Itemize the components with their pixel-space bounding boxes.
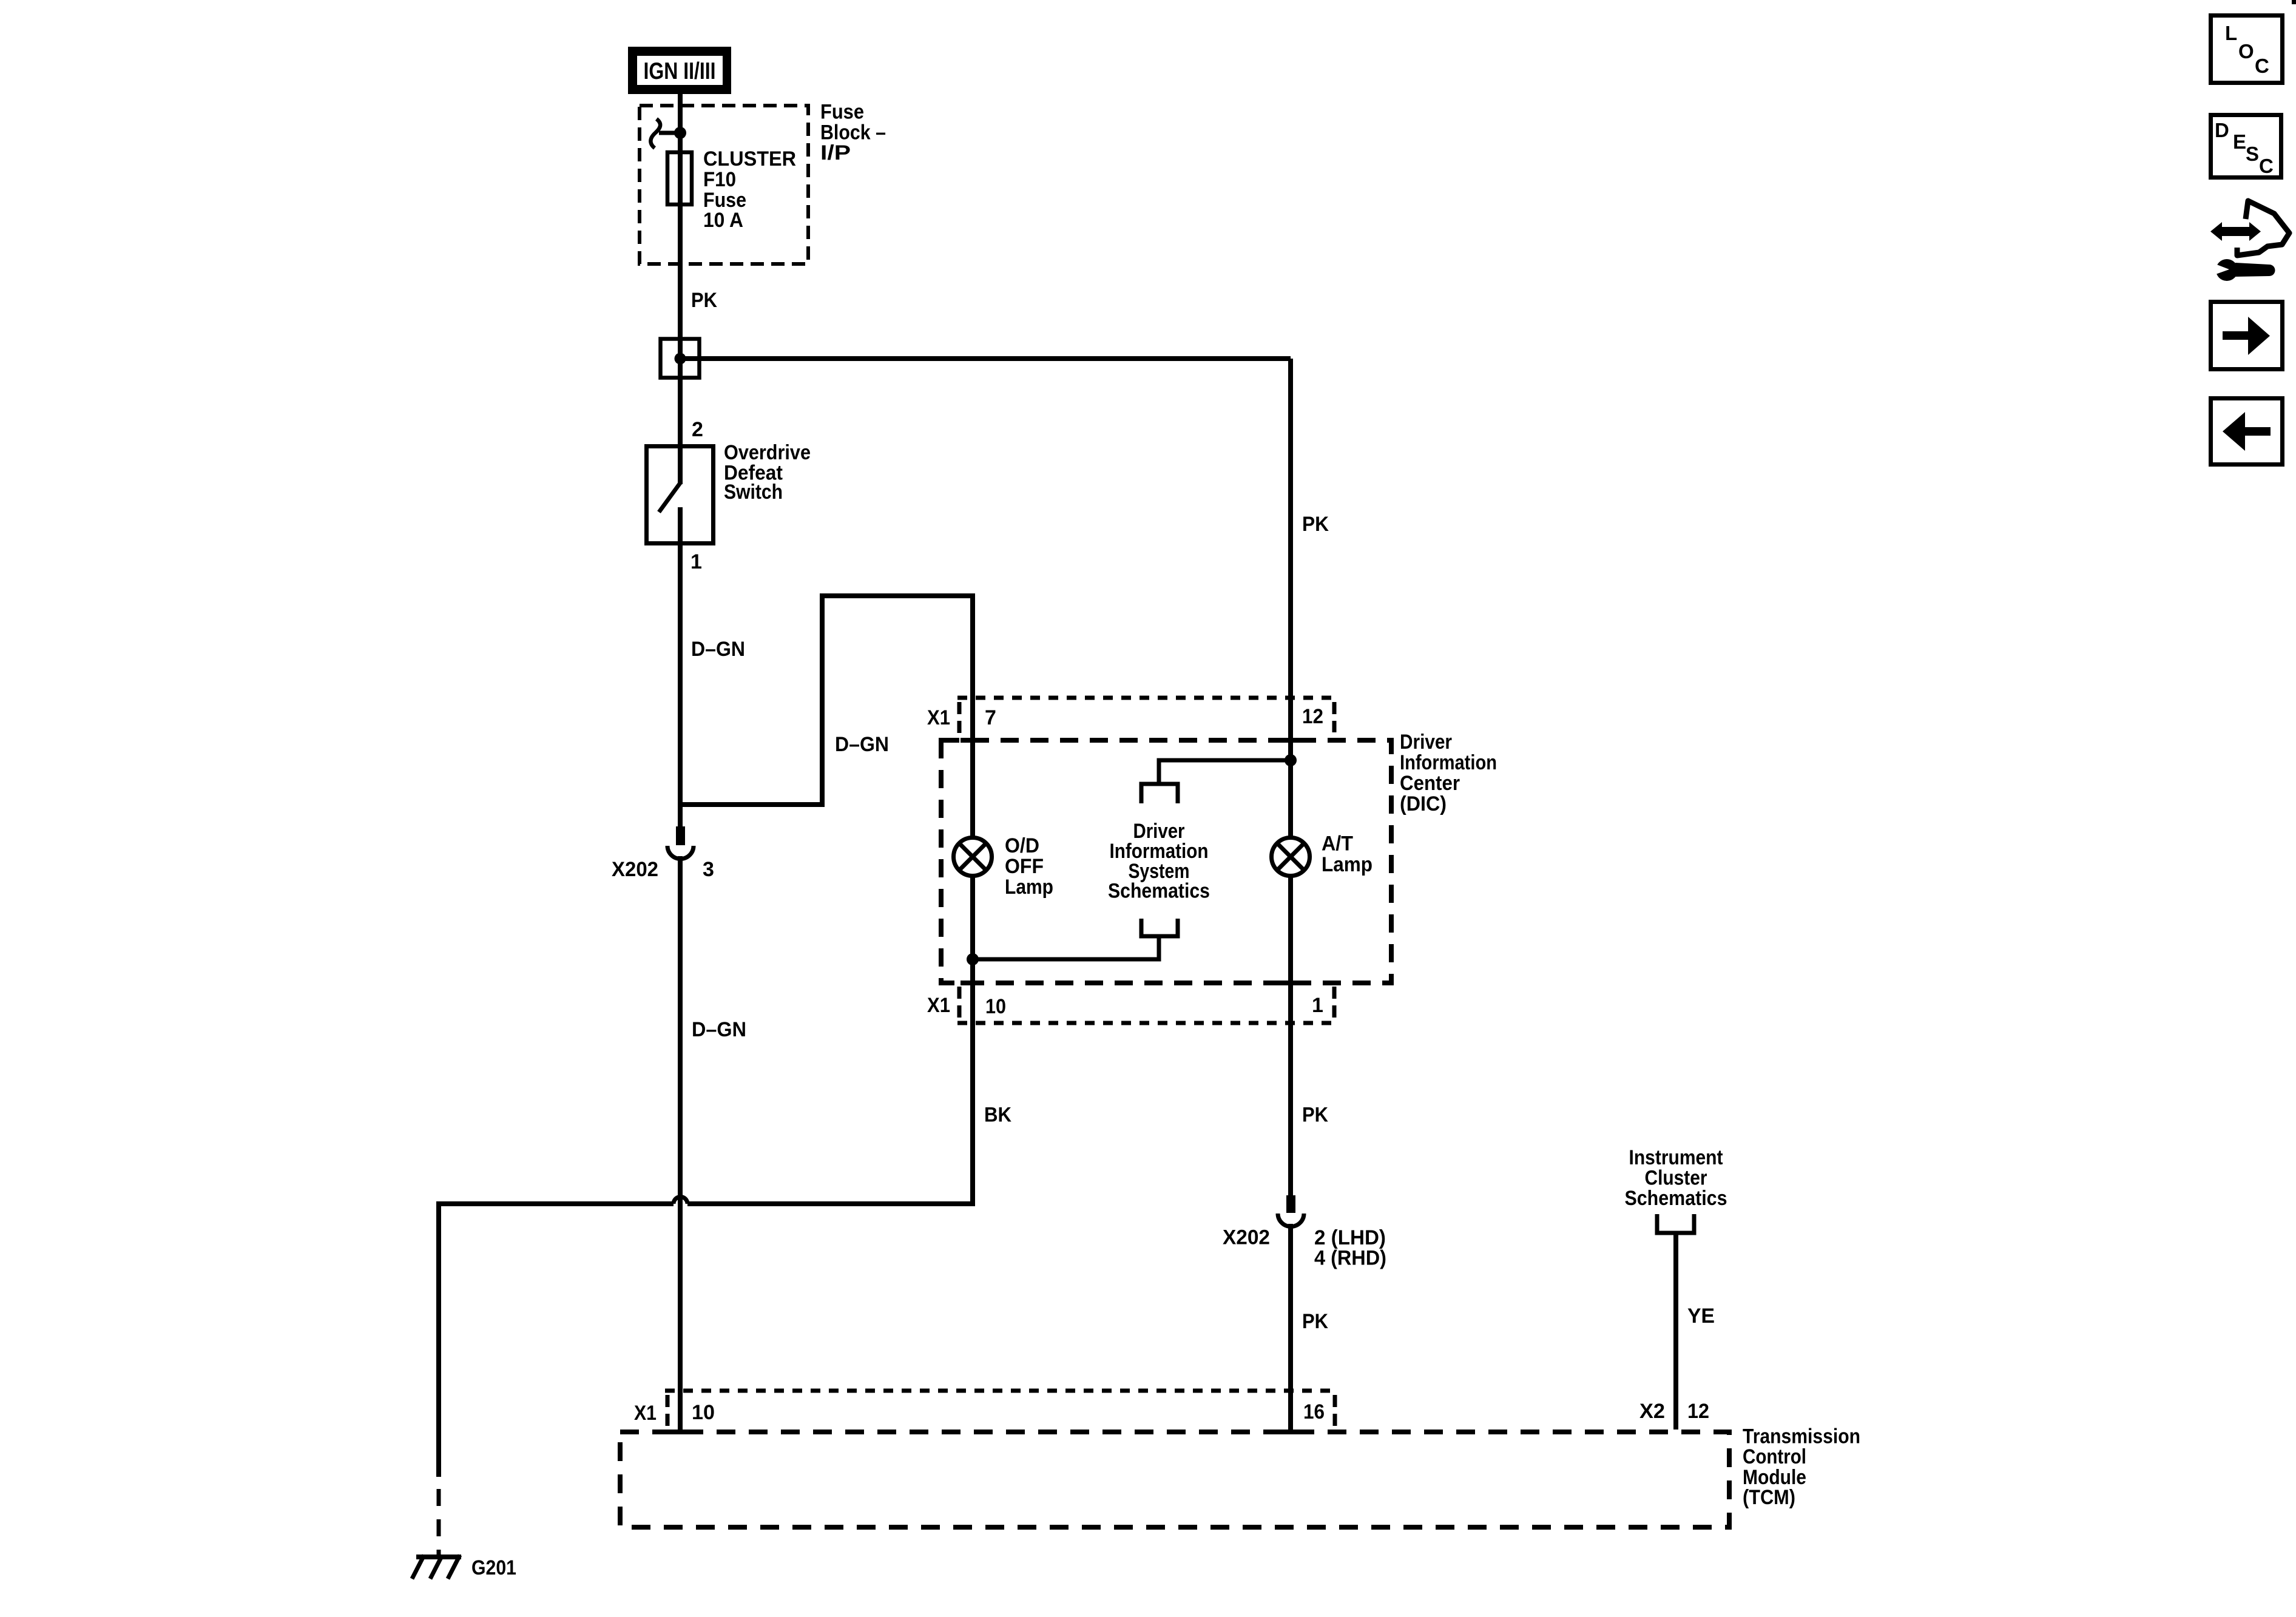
svg-text:12: 12 [1687, 1400, 1709, 1423]
wire BK horizontal left and down to ground [439, 1204, 674, 1477]
double arrow [2210, 222, 2261, 241]
svg-text:PK: PK [1302, 513, 1329, 536]
svg-text:X1: X1 [634, 1402, 657, 1425]
connector strip X1 bottom of DIC (dotted) [957, 1021, 1336, 1025]
svg-text:O: O [2238, 40, 2254, 62]
svg-text:Lamp: Lamp [1322, 853, 1373, 876]
icon LOC box [2211, 16, 2283, 83]
reference symbol top bracket (to Driver Information System Schematics) [1141, 784, 1178, 803]
wire YE from bracket to TCM X2-12 [1673, 1233, 1678, 1430]
wire tick DIC bottom edge at pin 1 [1278, 981, 1303, 985]
icon shift-cable with wrench [2210, 201, 2289, 281]
hook outline [2237, 201, 2289, 255]
svg-text:PK: PK [1302, 1310, 1328, 1333]
connector strip X1 top of DIC (dotted) [957, 696, 1336, 700]
svg-text:Center: Center [1400, 772, 1460, 795]
svg-text:10: 10 [985, 995, 1006, 1018]
svg-text:L: L [2225, 22, 2237, 44]
svg-text:D–GN: D–GN [692, 1018, 746, 1041]
connector strip X1 of TCM (dotted) [665, 1389, 1337, 1393]
svg-text:X2: X2 [1639, 1400, 1665, 1423]
svg-text:X1: X1 [927, 994, 950, 1017]
reference symbol bottom bracket [1141, 919, 1178, 936]
fuse block bus tap symbol [650, 119, 660, 148]
svg-text:Block –: Block – [820, 121, 886, 144]
svg-text:S: S [2246, 143, 2259, 165]
node junction square connector [661, 339, 700, 378]
wire A/T lamp down to X202 [1288, 876, 1293, 1197]
svg-text:3: 3 [703, 858, 714, 881]
svg-text:C: C [2255, 55, 2269, 77]
svg-text:2: 2 [692, 418, 703, 441]
svg-text:Lamp: Lamp [1005, 876, 1053, 899]
svg-text:7: 7 [985, 706, 996, 729]
svg-text:1: 1 [690, 550, 702, 573]
switch blade [659, 483, 680, 512]
node junction dot at fuse tap [674, 127, 686, 139]
wire from bottom bracket to O/D lamp branch [973, 936, 1159, 959]
wire tick TCM top edge at pin 16 [1281, 1430, 1305, 1434]
wire tap tick [659, 131, 680, 135]
svg-text:Transmission: Transmission [1743, 1425, 1860, 1448]
icon DESC box [2211, 115, 2281, 178]
ground G201 symbol [416, 1555, 461, 1559]
svg-text:Driver: Driver [1400, 731, 1452, 754]
wire D-GN branch up and over to DIC pin 7 [680, 596, 973, 836]
lamp O/D OFF [954, 838, 992, 876]
wire horizontal branch to right PK line [680, 356, 1291, 361]
connector X202 pin 3 male terminal [676, 826, 685, 845]
svg-text:X202: X202 [1223, 1226, 1270, 1249]
fuse CLUSTER F10 10A [667, 152, 692, 204]
node junction dot on O/D lamp wire [967, 953, 979, 965]
svg-text:Instrument: Instrument [1629, 1146, 1723, 1169]
svg-text:Information: Information [1400, 751, 1497, 774]
switch box Overdrive Defeat Switch [647, 447, 714, 544]
icon forward arrow box [2211, 302, 2283, 370]
svg-text:D: D [2215, 119, 2229, 141]
svg-text:A/T: A/T [1322, 832, 1353, 856]
svg-text:Schematics: Schematics [1108, 880, 1210, 903]
wire tick DIC top edge at pin 12 [1278, 738, 1303, 743]
svg-text:PK: PK [691, 289, 717, 312]
svg-text:(TCM): (TCM) [1743, 1486, 1795, 1509]
svg-text:12: 12 [1302, 705, 1323, 728]
svg-text:Fuse: Fuse [820, 101, 864, 124]
svg-text:2 (LHD): 2 (LHD) [1314, 1226, 1386, 1249]
svg-text:10 A: 10 A [703, 209, 743, 232]
wrench [2216, 259, 2238, 281]
wire D-GN from X202-3 down to TCM X1-10 [678, 856, 683, 1431]
svg-text:PK: PK [1302, 1104, 1328, 1127]
connector X202 pin 3 female half circle [667, 846, 694, 859]
connector X202 pin 2 female half circle [1278, 1214, 1304, 1227]
wire tick TCM top edge at pin 10 [670, 1430, 695, 1434]
lamp A/T [1272, 838, 1310, 876]
reference symbol bracket Instrument Cluster Schematics [1657, 1214, 1694, 1233]
wire tick DIC top edge at pin 7 [961, 738, 983, 743]
svg-text:16: 16 [1303, 1400, 1325, 1423]
svg-text:IGN II/III: IGN II/III [644, 58, 716, 84]
svg-text:I/P: I/P [820, 141, 851, 164]
icon back arrow box [2211, 399, 2283, 465]
DIC dashed box [941, 740, 1391, 983]
connector X202 pin 2 male terminal right branch [1286, 1195, 1295, 1213]
power feed box IGN II/III [628, 47, 731, 94]
wire from junction to DIS reference top bracket [1159, 760, 1291, 786]
svg-text:OFF: OFF [1005, 855, 1044, 878]
wire hop arc over D-GN [674, 1197, 687, 1204]
svg-text:Switch: Switch [724, 481, 783, 504]
svg-text:C: C [2259, 155, 2274, 177]
wire main PK feed from IGN II/III through fuse to switch [678, 91, 683, 484]
node junction dot in square [675, 353, 686, 365]
svg-text:G201: G201 [471, 1556, 516, 1579]
fuse block I/P dashed box [640, 106, 808, 264]
svg-text:Cluster: Cluster [1645, 1167, 1707, 1190]
TCM dashed box [620, 1432, 1729, 1527]
svg-text:Schematics: Schematics [1625, 1187, 1727, 1210]
svg-text:E: E [2233, 130, 2246, 153]
svg-text:Control: Control [1743, 1445, 1806, 1468]
svg-text:(DIC): (DIC) [1400, 792, 1447, 815]
svg-text:Overdrive: Overdrive [724, 441, 811, 464]
corner mark [2292, 0, 2296, 4]
svg-text:1: 1 [1312, 994, 1323, 1017]
svg-text:F10: F10 [703, 168, 736, 191]
svg-text:X202: X202 [612, 858, 658, 881]
wire right PK branch down to DIC pin 12 and lamp [1288, 359, 1293, 836]
svg-text:CLUSTER: CLUSTER [703, 147, 796, 170]
svg-text:D–GN: D–GN [691, 638, 745, 661]
svg-text:BK: BK [984, 1104, 1011, 1127]
svg-text:O/D: O/D [1005, 834, 1039, 857]
node junction dot on PK at DIS reference [1285, 754, 1297, 766]
wire switch lower contact down to X202 [678, 507, 683, 828]
wire BK from O/D lamp down then left to hop [687, 876, 973, 1204]
svg-text:10: 10 [692, 1401, 715, 1424]
wire PK from X202 down to TCM pin 16 [1288, 1224, 1293, 1431]
wire tick DIC bottom edge at pin 10 [961, 981, 983, 985]
svg-text:4 (RHD): 4 (RHD) [1314, 1247, 1386, 1270]
wire dashed drop to ground [437, 1489, 441, 1557]
svg-text:YE: YE [1687, 1305, 1715, 1328]
svg-text:X1: X1 [927, 706, 950, 729]
svg-text:D–GN: D–GN [835, 733, 889, 756]
